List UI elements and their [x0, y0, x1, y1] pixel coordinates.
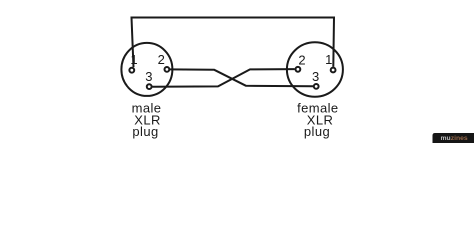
svg-text:3: 3	[312, 69, 319, 84]
svg-text:1: 1	[130, 52, 137, 67]
male pin 2 terminal	[165, 67, 170, 72]
male pin 1 terminal	[129, 68, 134, 73]
muzines watermark badge	[433, 133, 474, 143]
svg-text:2: 2	[298, 52, 305, 67]
male XLR connector body	[121, 43, 172, 96]
svg-text:3: 3	[145, 69, 152, 84]
male pin 3 terminal	[147, 84, 152, 89]
female XLR connector body	[287, 42, 343, 96]
svg-text:muzines: muzines	[441, 135, 468, 142]
svg-text:plug: plug	[304, 124, 330, 139]
female pin 3 terminal	[314, 84, 319, 89]
svg-text:1: 1	[325, 52, 332, 67]
svg-text:2: 2	[158, 52, 165, 67]
wire male pin1 to female pin1 (top)	[132, 18, 335, 68]
female pin 1 terminal	[331, 68, 336, 73]
wire male pin2 to female pin3 (crossover upper-left to lower-right)	[170, 69, 313, 86]
female pin 2 terminal	[296, 67, 301, 72]
wire male pin3 to female pin2 (crossover lower-left to upper-right)	[153, 69, 295, 87]
svg-text:plug: plug	[132, 124, 158, 139]
